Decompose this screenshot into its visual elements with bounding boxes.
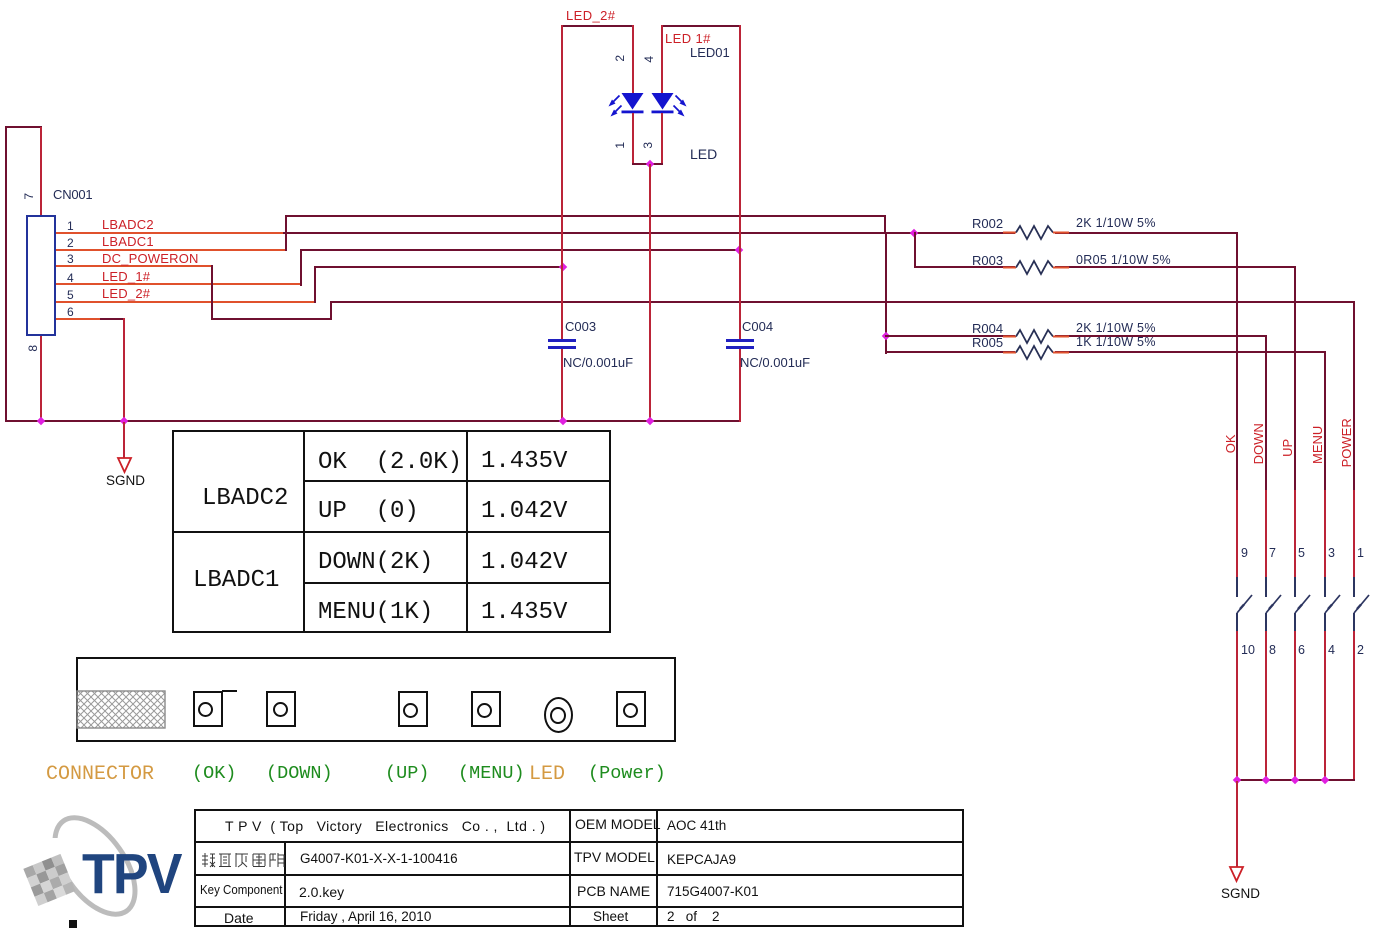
SGND label (left) <box>106 474 145 488</box>
board label (UP) <box>385 764 429 783</box>
wire R003 row <box>914 266 1296 268</box>
switch UP pin 6 <box>1298 644 1305 657</box>
net label DOWN (rotated) <box>1252 418 1266 470</box>
TPV logo checkered patch <box>20 790 270 930</box>
title block label column line <box>284 841 286 928</box>
voltage table row line (middle, full) <box>172 531 611 533</box>
pin 8 number <box>27 345 40 352</box>
title text key value <box>299 885 344 900</box>
junction pin6-rail <box>120 417 128 425</box>
connector CN001 outer frame left wire <box>5 126 7 422</box>
pin 4 stub wire <box>56 283 300 285</box>
LED diode symbol right (with emission arrows) <box>645 88 701 128</box>
wire LBADC1 step up <box>285 215 287 251</box>
board button OK <box>193 691 223 727</box>
pin 8 stub wire <box>40 336 42 422</box>
title text department (CJK) <box>200 852 285 868</box>
pin 1 stub wire <box>56 232 284 234</box>
board LED indicator outer ring <box>544 697 573 733</box>
TPV logo globe ring <box>20 790 270 930</box>
junction LED-rail <box>646 417 654 425</box>
wire MENU lower <box>1324 631 1326 781</box>
LED01 reference label <box>690 46 730 60</box>
board button POWER <box>616 691 646 727</box>
wire LBADC2 row (pin1 to right) <box>283 232 1238 234</box>
switch DOWN pin 7 <box>1269 547 1276 560</box>
title block row line 2 <box>194 874 964 876</box>
wire switch ground rail <box>1236 779 1355 781</box>
wire LED_2# vertical (C003 column upper) <box>561 25 563 340</box>
pin 6 vertical drop to SGND rail <box>123 318 125 422</box>
board button DOWN <box>266 691 296 727</box>
title text Key Component <box>200 884 282 897</box>
wire LED_2# step up <box>314 266 316 303</box>
board label (DOWN) <box>266 764 333 783</box>
resistor R003 body <box>1003 257 1083 277</box>
junction LBADC2/R004 <box>882 332 890 340</box>
wire LBADC1 top run <box>285 215 886 217</box>
junction C003-rail <box>558 417 566 425</box>
board button MENU circle <box>477 703 492 718</box>
board button DOWN circle <box>273 702 288 717</box>
resistor R003 reference <box>972 254 1003 268</box>
title text sheet value <box>667 910 720 924</box>
resistor R004 body <box>1003 326 1083 346</box>
wire drop to SGND (right) <box>1236 781 1238 867</box>
board label (OK) <box>192 764 236 783</box>
resistor R002 value <box>1076 217 1156 230</box>
capacitor C004 reference <box>742 320 773 334</box>
net label LBADC1 <box>102 235 154 249</box>
pin 3 stub wire <box>56 265 212 267</box>
switch OK pin 10 <box>1241 644 1255 657</box>
connector CN001 body <box>26 215 56 336</box>
wire LED_1# vertical (C004 column upper) <box>739 25 741 340</box>
wire DC_POWERON long run <box>330 301 1355 303</box>
SGND rail wire (bottom) <box>5 420 740 422</box>
resistor R002 reference <box>972 217 1003 231</box>
table text UP (0) <box>318 499 419 524</box>
SGND symbol (right) <box>1224 865 1250 885</box>
title text drawing number <box>300 852 458 866</box>
SGND label (right) <box>1221 887 1260 901</box>
wire OK column (from R002) <box>1236 232 1238 491</box>
board button POWER circle <box>623 703 638 718</box>
table text OK (2.0K) <box>318 450 462 475</box>
net label LED 1# (top) <box>665 32 711 46</box>
wire LED_1# step up <box>300 249 302 286</box>
board button MENU <box>471 691 501 727</box>
board LED indicator inner circle <box>550 707 566 724</box>
connector CN001 outer frame top wire <box>5 126 42 128</box>
wire LBADC1 step down at right <box>884 215 886 233</box>
pin 7 stub wire <box>40 127 42 216</box>
wire DC_POWERON up jog <box>330 301 332 320</box>
title block value column line <box>656 809 658 927</box>
switch DOWN pin 8 <box>1269 644 1276 657</box>
wire UP column (from R003) <box>1294 266 1296 490</box>
title text AOC 41th <box>667 819 726 833</box>
pin 3 number <box>67 253 74 266</box>
junction R002/R003 branch <box>910 228 918 236</box>
board button OK tab line <box>222 690 237 692</box>
TPV logo wordmark <box>82 841 185 907</box>
table text LBADC2 <box>202 486 288 511</box>
voltage table row line (lower, partial) <box>303 582 611 584</box>
switch POWER pin 2 <box>1357 644 1364 657</box>
table text 1.435V (row1) <box>481 449 567 474</box>
board label CONNECTOR <box>46 764 154 785</box>
switch OK pin 9 <box>1241 547 1248 560</box>
wire DOWN lower <box>1265 631 1267 781</box>
wire MENU column (from R005) <box>1324 351 1326 490</box>
capacitor C003 reference <box>565 320 596 334</box>
switch SW-OK <box>1226 575 1256 635</box>
board label (Power) <box>588 764 666 783</box>
voltage table column line 2 <box>466 430 468 633</box>
resistor R003 value <box>1076 254 1171 267</box>
pin 2 stub wire <box>56 249 285 251</box>
wire LED_2# top bracket <box>561 25 634 27</box>
wire DC_POWERON down jog <box>211 265 213 320</box>
wire LED cathode join <box>632 163 664 165</box>
keypad board outline <box>76 657 676 742</box>
wire LED anode 2 vertical <box>632 25 634 95</box>
net label LED_2# (top) <box>566 9 615 23</box>
table text MENU(1K) <box>318 600 433 625</box>
net label LED_2# <box>102 287 150 301</box>
board label (MENU) <box>458 764 525 783</box>
SGND drop wire below rail <box>123 422 125 459</box>
pin 5 number <box>67 289 74 302</box>
wire POWER lower <box>1353 631 1355 781</box>
wire LED cathode drop to SGND rail <box>649 164 651 421</box>
wire LED_1# row run <box>300 249 740 251</box>
pin 2 number <box>67 237 74 250</box>
junction OK-rail <box>1233 776 1241 784</box>
board label LED <box>529 764 565 785</box>
title text KEPCAJA9 <box>667 853 736 867</box>
title text company <box>225 819 546 834</box>
net label UP (rotated) <box>1281 434 1295 462</box>
table text 1.042V (row2) <box>481 499 567 524</box>
pin 4 number <box>67 272 74 285</box>
table text DOWN(2K) <box>318 550 433 575</box>
pin 7 number <box>23 193 36 200</box>
voltage table column line 1 <box>303 430 305 633</box>
pin 6 wire to drop <box>100 318 125 320</box>
wire DOWN column (from R004) <box>1265 335 1267 490</box>
SGND symbol (left) <box>112 456 138 476</box>
title block row line 3 <box>194 906 964 908</box>
LED pin number 4 <box>643 56 656 63</box>
net label OK (rotated) <box>1224 430 1238 458</box>
wire R005 row <box>885 351 1326 353</box>
board button OK circle <box>198 702 213 717</box>
switch UP pin 5 <box>1298 547 1305 560</box>
title text 715G4007-K01 <box>667 885 759 899</box>
junction LED_2#/C003 <box>558 262 566 270</box>
wire R003 branch down <box>914 232 916 268</box>
LED pin number 2 <box>614 55 627 62</box>
title text Date <box>224 911 254 926</box>
title block OEM column line <box>569 809 571 927</box>
capacitor C004 bottom lead <box>739 349 741 422</box>
resistor R004 reference <box>972 322 1003 336</box>
wire LED cathode 1 vertical <box>632 113 634 164</box>
switch SW-POWER <box>1343 575 1373 635</box>
wire LBADC2 down at x886 <box>885 232 887 354</box>
title text OEM MODEL <box>575 817 661 832</box>
capacitor C004 plates <box>726 339 754 342</box>
wire UP lower <box>1294 631 1296 781</box>
net label MENU (rotated) <box>1311 419 1325 471</box>
capacitor C003 value <box>563 356 633 370</box>
wire POWER column (from DC_POWERON) <box>1353 301 1355 491</box>
resistor R005 value <box>1076 336 1156 349</box>
junction LED cathode <box>646 159 654 167</box>
net label DC_POWERON <box>102 252 199 266</box>
switch SW-UP <box>1284 575 1314 635</box>
pin 6 number <box>67 306 74 319</box>
title text TPV MODEL <box>574 850 655 865</box>
voltage table frame <box>172 430 611 633</box>
title text Sheet <box>593 910 628 924</box>
junction UP-rail <box>1291 776 1299 784</box>
wire R004 row <box>885 335 1266 337</box>
wire LED_2# row run <box>314 266 564 268</box>
capacitor C004 value <box>740 356 810 370</box>
keypad board connector hatch area <box>77 690 166 729</box>
switch POWER pin 1 <box>1357 547 1364 560</box>
title block row line 1 <box>194 841 964 843</box>
junction MENU-rail <box>1320 776 1328 784</box>
LED diode symbol left (with emission arrows) <box>600 88 650 128</box>
table text 1.435V (row4) <box>481 600 567 625</box>
wire LED anode 4 vertical <box>661 25 663 95</box>
resistor R004 value <box>1076 322 1156 335</box>
resistor R005 body <box>1003 342 1083 362</box>
net label LED_1# <box>102 270 150 284</box>
resistor R002 body <box>1003 222 1083 242</box>
capacitor C003 bottom lead <box>561 349 563 422</box>
pin 5 stub wire <box>56 301 314 303</box>
voltage table row line (upper, partial) <box>303 480 611 482</box>
switch SW-DOWN <box>1255 575 1285 635</box>
connector CN001 reference label <box>53 188 92 202</box>
title text date value <box>300 910 431 924</box>
title block frame <box>194 809 964 927</box>
resistor R005 reference <box>972 336 1003 350</box>
wire DC_POWERON bottom jog <box>211 318 332 320</box>
capacitor C003 plates <box>548 339 576 342</box>
switch MENU pin 3 <box>1328 547 1335 560</box>
LED type label <box>690 147 717 162</box>
junction DOWN-rail <box>1261 776 1269 784</box>
wire OK lower <box>1236 631 1238 781</box>
LED pin number 1 <box>614 142 627 149</box>
net label POWER (rotated) <box>1340 414 1354 472</box>
board button UP <box>398 691 428 727</box>
switch MENU pin 4 <box>1328 644 1335 657</box>
wire LED cathode 3 vertical <box>661 113 663 164</box>
table text LBADC1 <box>193 568 279 593</box>
title text PCB NAME <box>577 884 650 899</box>
junction LED_1#/C004 <box>734 245 742 253</box>
pin 6 stub wire <box>56 318 100 320</box>
junction pin8-rail <box>37 417 45 425</box>
table text 1.042V (row3) <box>481 550 567 575</box>
LED pin number 3 <box>642 142 655 149</box>
switch SW-MENU <box>1314 575 1344 635</box>
wire LED_1# top bracket <box>661 25 741 27</box>
pin 1 number <box>67 220 74 233</box>
net label LBADC2 <box>102 218 154 232</box>
board button UP circle <box>403 703 418 718</box>
